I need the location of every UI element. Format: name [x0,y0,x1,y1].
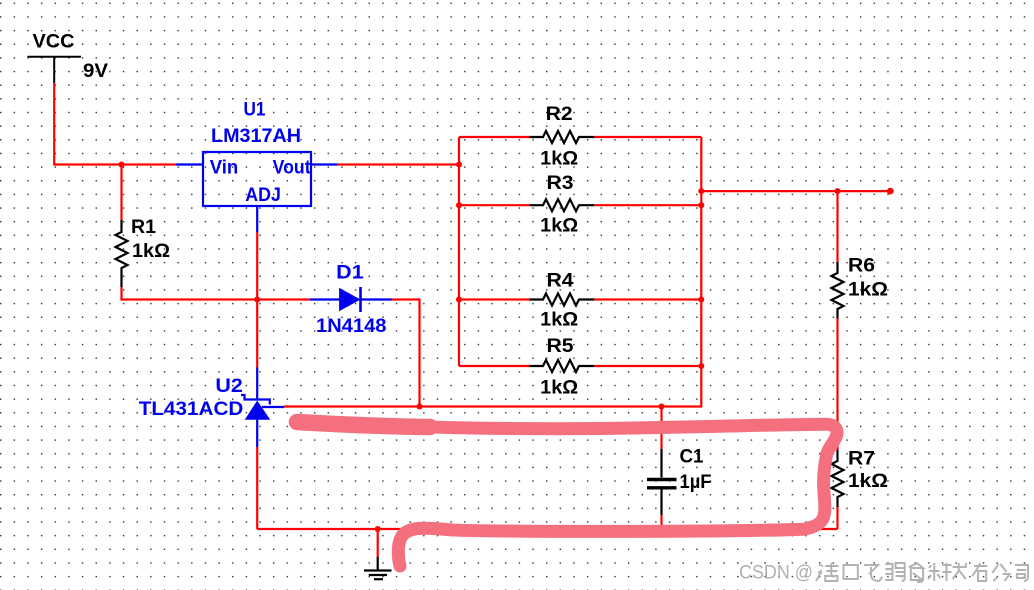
svg-text:1kΩ: 1kΩ [540,215,578,236]
transistor U2 TL431 [241,368,284,448]
svg-text:TL431ACD: TL431ACD [139,399,244,420]
wire R5 row [459,365,529,367]
highlighter left blob [297,422,430,427]
resistor R6 [832,262,844,319]
svg-text:Vin: Vin [210,158,239,179]
wire R1 bottom to ADJ node [122,287,311,300]
svg-text:9V: 9V [83,61,108,82]
wire R6 to R7 [836,319,838,451]
watermark CJK glyph mimics [816,563,1028,582]
svg-text:D1: D1 [336,263,364,284]
node R3 right [698,202,704,208]
svg-text:1kΩ: 1kΩ [848,279,888,300]
wire R7 bottom [836,507,838,529]
node C1 top [659,404,665,410]
wire R3 row [459,204,529,206]
svg-text:1µF: 1µF [680,472,712,493]
svg-text:R2: R2 [546,104,573,125]
U1 pin ADJ [256,206,258,232]
resistor R1 [116,220,128,287]
svg-text:VCC: VCC [33,31,75,52]
svg-text:R1: R1 [131,217,156,238]
wire TL431 anode to rail [256,447,258,529]
highlighter top stroke [296,422,837,567]
svg-text:C1: C1 [680,447,704,468]
diode D1 [310,287,392,312]
node R3 left [456,202,462,208]
node wire end [887,188,894,195]
node R4 right [698,297,704,303]
svg-text:R7: R7 [848,448,875,469]
wire VCC stem to Vin [54,83,176,165]
resistor R2 [529,131,594,143]
resistor R7 [832,450,844,507]
node R5 right [698,363,704,369]
svg-text:Vout: Vout [273,158,312,179]
node C1 bottom [659,526,665,532]
svg-text:1kΩ: 1kΩ [540,149,578,170]
svg-text:1kΩ: 1kΩ [540,378,578,399]
wire R6 top [836,191,838,262]
U1 pin Vin [176,163,203,165]
svg-text:1kΩ: 1kΩ [540,310,578,331]
wire right bus [700,137,702,407]
node D1-ref [417,404,423,410]
node R6 tap [835,188,841,194]
node Vout-bus [456,162,462,168]
wire ADJ down to TL431 [256,232,258,368]
svg-text:1N4148: 1N4148 [316,316,387,337]
wire bottom rail [257,528,837,530]
U1 pin Vout [311,163,338,165]
node R1 tap [119,162,125,168]
svg-text:R6: R6 [848,256,875,277]
svg-text:1kΩ: 1kΩ [848,471,888,492]
wire C1 bottom [660,515,662,529]
ground [364,557,392,579]
svg-text:1kΩ: 1kΩ [132,241,170,262]
wire D1 cathode to ref net [392,300,420,407]
svg-text:R4: R4 [547,270,574,291]
wire R1 top [120,165,122,221]
wire C1 top [660,407,662,450]
node ADJ tap [254,297,260,303]
svg-text:U2: U2 [215,376,243,397]
resistor R4 [529,294,594,306]
wire reference net [284,405,702,407]
svg-text:U1: U1 [244,100,266,121]
node output [698,188,704,194]
wire output [701,190,890,192]
wire ground stem [377,529,379,557]
svg-text:ADJ: ADJ [245,185,281,206]
watermark CSDN [739,561,813,583]
svg-text:R3: R3 [547,173,574,194]
node ground tap [375,526,381,532]
capacitor C1 [647,449,677,515]
wire Vout to left bus [338,163,460,165]
wire left bus [458,137,460,366]
resistor R3 [529,199,594,211]
power VCC symbol [28,57,82,83]
wire R4 row [459,298,529,300]
svg-text:CSDN @: CSDN @ [739,561,813,583]
svg-text:R5: R5 [547,336,574,357]
op-amp U1 box [203,152,311,206]
resistor R5 [529,360,594,372]
svg-text:LM317AH: LM317AH [211,126,301,147]
node R4 left [456,297,462,303]
wire R2 row [459,136,529,138]
